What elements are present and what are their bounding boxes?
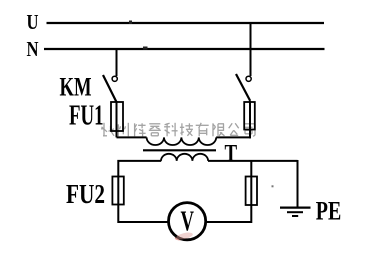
svg-text:FU2: FU2 — [66, 179, 105, 209]
svg-text:T: T — [225, 141, 238, 167]
svg-text:N: N — [27, 37, 39, 61]
svg-text:FU1: FU1 — [69, 101, 104, 132]
svg-text:V: V — [180, 206, 194, 237]
svg-text:KM: KM — [60, 73, 92, 102]
svg-text:PE: PE — [316, 197, 342, 226]
svg-text:U: U — [27, 10, 39, 34]
